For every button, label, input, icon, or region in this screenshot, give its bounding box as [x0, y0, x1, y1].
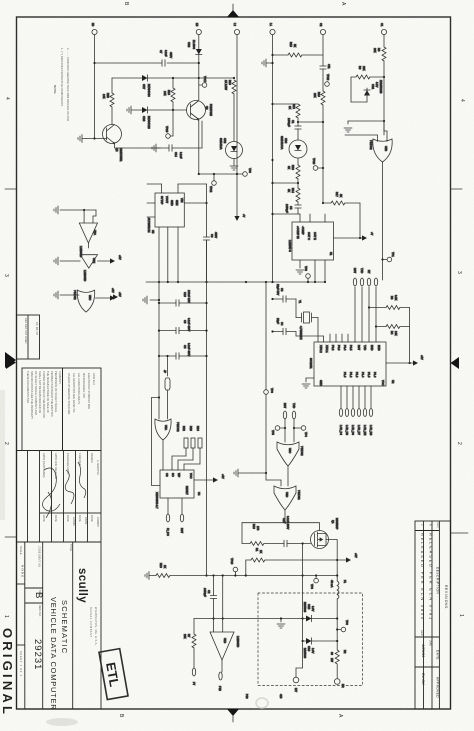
test point TP18 [165, 126, 173, 138]
+V arrow [234, 35, 246, 221]
scan noise overlay [0, 0, 1, 1]
test point TP6b [336, 620, 349, 632]
ic U2 89C2051 [309, 342, 395, 386]
resistor R18 [163, 77, 175, 136]
resistor R16 [224, 77, 236, 141]
rung to C2 column y122 [297, 121, 324, 123]
resistor R14 [287, 188, 300, 205]
capacitor C8m [203, 184, 218, 282]
wire L1 bus [272, 35, 274, 282]
wire Q3 emitter down [201, 121, 203, 148]
wire E6 down [94, 35, 96, 139]
test point TP5 [271, 426, 286, 436]
node [315, 574, 317, 576]
op-amp U1B [210, 632, 240, 660]
ground [152, 144, 160, 152]
capacitor C4 [271, 318, 297, 335]
transistor Q2 [103, 125, 124, 162]
resistor R12 [288, 104, 300, 118]
capacitor C2 [203, 576, 217, 633]
resistor array R22/R23/R24 [172, 426, 202, 470]
ETL stamp [99, 649, 128, 700]
crystal Y1 [294, 299, 318, 342]
zener CR8 [142, 107, 151, 129]
node [93, 137, 95, 139]
capacitor C8d [158, 343, 208, 359]
scale cell [19, 546, 25, 677]
horizontal bus y282 [146, 281, 325, 283]
capacitor C5 [271, 204, 301, 215]
wire U3C out [287, 466, 289, 486]
gate U5A [155, 419, 180, 440]
wire vcc pin [386, 355, 424, 366]
test point TP19 [312, 158, 324, 170]
title area dividers [17, 542, 102, 709]
header pads row [339, 409, 373, 436]
node [198, 62, 200, 64]
test point TP9 [243, 168, 252, 176]
transient suppressor CR2 [219, 138, 243, 170]
jumper JP [163, 355, 170, 419]
wire to header [382, 260, 384, 281]
wire rail down [158, 356, 160, 419]
test point TP17 [199, 76, 207, 87]
node [212, 574, 214, 576]
+5V arrow source [337, 553, 358, 563]
proprietary note box [22, 368, 63, 451]
resistor R17 [322, 192, 361, 239]
pad TXD2 [292, 403, 296, 419]
wire from gates [241, 522, 285, 524]
wire gnd rung [344, 120, 385, 132]
test point TP3 [304, 266, 310, 283]
spare comparator U3E [54, 255, 122, 282]
resistor R18b [287, 165, 300, 188]
U4 bottom pads [166, 498, 184, 536]
resistor R13 label [252, 524, 260, 531]
node [93, 62, 95, 64]
zener CR1 [351, 76, 383, 102]
terminal C1 [380, 23, 387, 35]
wire y63 [95, 62, 199, 64]
wire CR5/6 left leg down [296, 641, 303, 677]
decoupling rail left [159, 240, 208, 577]
fuse F1 [330, 560, 347, 650]
unless otherwise specified box [63, 368, 102, 451]
wire y174 [199, 173, 243, 175]
gate U3C [277, 442, 304, 466]
ic U4 X25043 [155, 470, 201, 509]
rung y160 [271, 159, 284, 161]
+5V arrow mid [111, 288, 121, 300]
resistor R3 [368, 295, 410, 310]
spare gate U5C [54, 290, 122, 312]
U1 pin stubs [300, 214, 326, 283]
signature scribbles [42, 462, 85, 518]
node [302, 574, 304, 576]
left edge zone ticks [5, 189, 17, 537]
terminal E5 [195, 23, 201, 35]
wire U5A out [162, 440, 164, 470]
resistor R2 [330, 650, 347, 678]
test point TP10b [209, 173, 216, 193]
pad RST2 [283, 403, 287, 419]
code ident / size / dwg no cells [32, 546, 44, 670]
resistor R1 [245, 548, 339, 577]
ground + wire [234, 469, 281, 486]
dashed protection box [258, 593, 363, 686]
terminal C2 [319, 23, 326, 35]
ground [145, 572, 156, 580]
capacitor C9d [158, 318, 208, 334]
wire op+ input [222, 576, 224, 633]
pad FTO [218, 672, 222, 691]
capacitor C3 [271, 284, 296, 302]
faint scan smudges [46, 718, 78, 726]
wire rail lower [265, 394, 267, 480]
ladder rung y104 [271, 103, 298, 105]
resistor R19 [313, 91, 325, 203]
ground in box [277, 617, 285, 628]
terminal L2 [233, 23, 240, 35]
resistor R8 [373, 47, 386, 135]
title block outline [17, 451, 102, 710]
test point TP1 [383, 252, 396, 262]
signature grid [17, 451, 102, 543]
scully logo cell [76, 568, 98, 646]
spare comparator U2A [54, 206, 98, 257]
wire +V rail x266 [265, 281, 267, 390]
ground [236, 334, 273, 477]
wire gnd pin [302, 378, 314, 388]
right edge center arrow [451, 357, 460, 369]
ground [262, 59, 274, 67]
test point TP6 [264, 388, 274, 394]
serial pads row [353, 268, 378, 286]
ground [78, 135, 86, 143]
wire C5/C column to U1 [298, 208, 310, 214]
wire U5 bottom stubs [158, 227, 179, 300]
ic U1 LM2907 [288, 222, 334, 260]
capacitor C1 [287, 118, 301, 140]
test point TP8 [310, 576, 318, 590]
top center registration triangle [227, 4, 239, 17]
resistor R15 [271, 42, 323, 57]
title cell [49, 544, 73, 710]
wire U3D out [284, 510, 286, 524]
U2 bottom pin stubs to header [341, 386, 371, 408]
capacitor C11 [320, 64, 331, 91]
suppressor CR4 [280, 136, 307, 165]
pad FT [192, 668, 196, 686]
revision table [415, 521, 451, 709]
wire y618.5 [194, 618, 303, 620]
tiny bottom margin text [245, 694, 283, 699]
capacitor C10d [158, 290, 208, 306]
capacitor C14 [160, 145, 202, 159]
resistor R9 [351, 66, 384, 79]
wire [297, 118, 299, 126]
wire Q1 drain top [285, 523, 320, 531]
ground [143, 296, 160, 304]
resistor R10 [156, 563, 337, 578]
wire E5 net long vertical [198, 120, 200, 189]
resistor R4 [375, 325, 410, 336]
ref des not used box [17, 315, 40, 359]
test point TP10 [323, 74, 330, 86]
wire left leg x302.6 [302, 542, 304, 641]
resistor R7 [183, 619, 196, 669]
zener CR5 [303, 602, 339, 622]
zener CR6 [302, 638, 339, 659]
wire Q1 source right [326, 540, 337, 561]
test point TP4 [293, 426, 308, 438]
U5 pin stubs [147, 184, 208, 217]
wire y110 [131, 109, 187, 111]
terminal L1 [269, 23, 275, 35]
right edge zone ticks [451, 189, 469, 533]
ground [127, 106, 131, 114]
wire y78 [112, 77, 234, 79]
U2 top pin stubs [318, 287, 376, 342]
wire E5 net down to bus [199, 120, 202, 175]
zener CR7 [142, 75, 151, 97]
left edge center arrow [6, 356, 16, 369]
U4 +5V arrow [194, 474, 225, 483]
transistor Q3 [187, 101, 214, 122]
wire U5B out [381, 162, 383, 261]
terminal E6 [91, 23, 97, 35]
wires pads to gate [285, 419, 294, 442]
bottom center registration triangle [227, 709, 239, 722]
left zone boundary triangle [5, 352, 16, 368]
+V arrow U1 [334, 232, 375, 241]
capacitor C10 label [282, 516, 290, 530]
wire xtal2 [296, 332, 324, 343]
node [383, 76, 385, 78]
node [222, 574, 224, 576]
wire Q2 emitter to C14 [115, 144, 161, 149]
pad EIT [293, 677, 299, 692]
bypass wire to U4 [152, 398, 161, 486]
diode CR3 [187, 35, 202, 63]
capacitor C7 [159, 50, 173, 66]
regulator U5 LP2951 [147, 193, 184, 234]
test point TP16 [230, 558, 238, 577]
ground [296, 270, 304, 274]
wire Q2 base [86, 138, 107, 140]
wire C1 column [383, 35, 385, 47]
transistor Q1 (P-FET) [311, 518, 340, 549]
node [198, 77, 200, 79]
gate U3D [274, 486, 301, 510]
note text block [53, 48, 70, 121]
pad ER [334, 679, 345, 688]
rung y183 [271, 182, 299, 184]
wire E5 column [198, 63, 200, 100]
wire U1B out [221, 660, 223, 672]
wire C2 column [322, 35, 324, 66]
resistor R20 [102, 78, 114, 125]
gate U5B [345, 121, 392, 162]
wire R3/R4 join [409, 308, 411, 364]
wire gate line y543.5 [242, 523, 311, 547]
